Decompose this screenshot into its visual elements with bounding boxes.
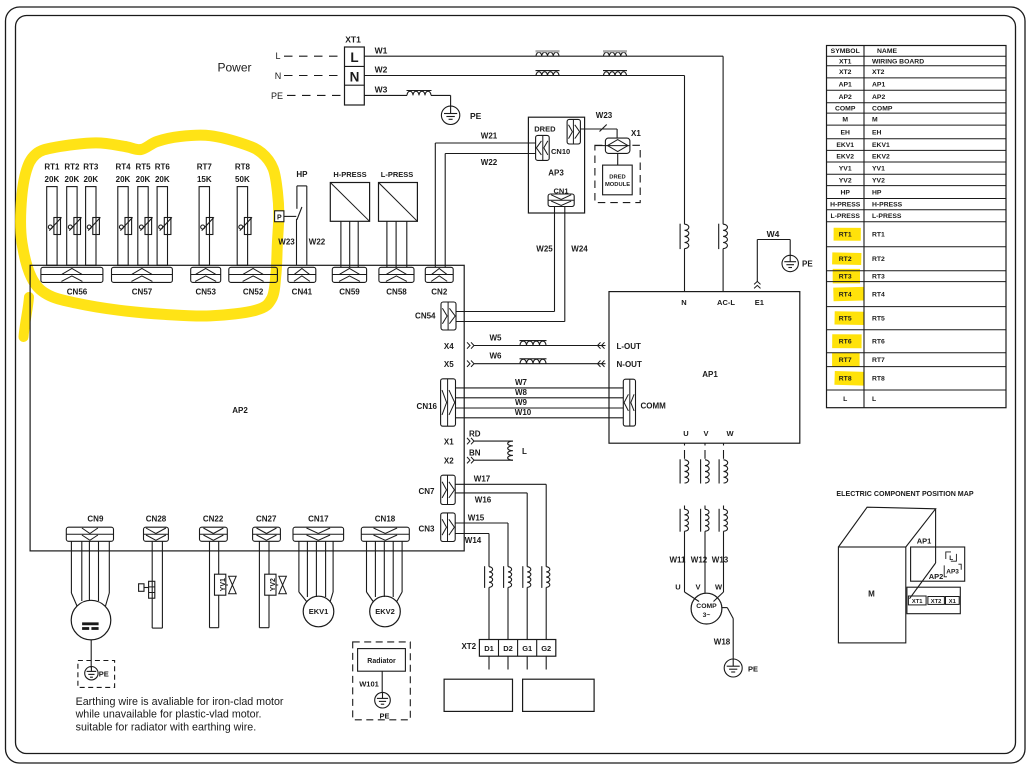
svg-text:W8: W8 [515,388,528,397]
wire W17 [455,475,546,567]
svg-text:M: M [868,590,875,599]
solenoid YV1 [215,574,237,595]
connector CN57 [112,267,173,296]
svg-text:HP: HP [840,190,850,197]
svg-text:MODULE: MODULE [605,182,630,188]
wire W14 [455,534,489,567]
svg-text:XT2: XT2 [931,599,942,605]
ground PE radiator [375,692,391,720]
svg-text:U: U [675,583,680,592]
svg-text:EKV1: EKV1 [872,142,890,149]
thermistor RT6 20K [155,163,172,266]
wire W3 [364,85,450,107]
ground PE under motor [85,667,109,680]
svg-text:W12: W12 [691,556,708,565]
svg-text:W23: W23 [596,111,613,120]
position map title [836,490,973,498]
cable from CN27 [259,541,269,627]
wire W22 [445,154,535,268]
svg-text:COMP: COMP [872,105,893,112]
svg-text:CN7: CN7 [418,487,435,496]
svg-text:L: L [872,396,876,403]
svg-text:CN41: CN41 [292,288,313,297]
svg-text:XT2: XT2 [839,69,852,76]
svg-text:X1: X1 [631,129,641,138]
svg-text:NAME: NAME [877,48,897,55]
wire W8 [456,388,624,398]
phase wire U column [680,443,699,602]
svg-text:W101: W101 [359,679,379,688]
module AP3 [528,117,584,213]
terminal AC-L [717,298,735,307]
inverter board AP1 [609,292,800,444]
phase wire V column [701,443,710,593]
svg-text:CN52: CN52 [243,288,264,297]
svg-text:W6: W6 [490,352,503,361]
svg-text:RT1: RT1 [44,163,60,172]
svg-text:CN10: CN10 [551,147,570,156]
svg-text:XT1: XT1 [839,58,852,65]
P sensor box [275,211,297,222]
svg-text:RT7: RT7 [839,357,852,364]
svg-text:RT4: RT4 [839,292,852,299]
svg-text:W11: W11 [669,556,686,565]
svg-text:YV2: YV2 [872,177,885,184]
device box D1-D2 [444,679,512,711]
svg-text:HP: HP [872,190,882,197]
plug arrow E1 [754,281,760,288]
svg-text:PE: PE [99,669,109,678]
svg-text:CN2: CN2 [431,288,448,297]
svg-text:CN54: CN54 [415,312,436,321]
symbol-name table [827,46,1007,408]
wire W2 [364,65,684,225]
svg-text:DRED: DRED [534,124,556,133]
socket arrow N-OUT [598,360,642,369]
inductor on W2 left [536,71,560,76]
terminal U [683,429,688,438]
svg-text:V: V [695,583,700,592]
svg-text:AP1: AP1 [872,82,885,89]
svg-text:CN28: CN28 [146,515,167,524]
connector CN22 [200,515,228,542]
svg-text:L: L [843,396,847,403]
svg-text:N: N [275,71,282,81]
pressure switch HP [296,170,308,265]
svg-text:L-PRESS: L-PRESS [872,213,902,220]
svg-text:HP: HP [296,170,308,179]
wire W13 [712,556,729,565]
clip on CN28 cable [139,581,155,598]
svg-text:W18: W18 [714,638,731,647]
svg-text:Radiator: Radiator [367,658,396,665]
svg-text:G2: G2 [541,644,551,653]
connector COMM [623,379,666,426]
wire W7 [456,378,624,388]
svg-text:AP1: AP1 [839,82,852,89]
svg-text:20K: 20K [45,175,60,184]
svg-text:RT3: RT3 [83,163,99,172]
plug X5 [444,360,606,369]
connector CN7 [418,475,455,504]
svg-text:RT2: RT2 [872,256,885,263]
terminal W [726,429,734,438]
svg-text:W5: W5 [490,333,503,342]
svg-text:AP1: AP1 [917,536,932,545]
earth enclosure dashed [78,661,115,688]
cable from CN22 [210,541,219,627]
wire motor to earth [90,640,92,668]
plug X4 [444,342,606,351]
wire W25 [456,207,555,312]
svg-text:RT1: RT1 [839,232,852,239]
svg-text:CN59: CN59 [339,288,360,297]
svg-text:D2: D2 [503,644,513,653]
svg-text:EH: EH [872,129,882,136]
svg-text:W2: W2 [375,65,388,75]
svg-text:X5: X5 [444,360,454,369]
node PE lead [271,91,345,101]
position map L component [946,552,957,562]
terminal N [681,298,686,307]
inductor on XT2 feed x489 [485,566,493,639]
svg-text:RT4: RT4 [115,163,131,172]
connector CN9 [66,515,113,542]
svg-text:AP3: AP3 [548,168,564,177]
svg-text:X2: X2 [444,457,454,466]
thermistor RT2 20K [64,163,81,266]
svg-text:AC-L: AC-L [717,298,735,307]
inductor on W5 [490,333,547,345]
svg-text:W22: W22 [481,158,498,167]
svg-text:50K: 50K [235,175,250,184]
wire D2 down [507,656,509,669]
svg-text:AP2: AP2 [232,406,248,415]
svg-text:XT2: XT2 [461,642,476,651]
svg-text:D1: D1 [484,644,494,653]
svg-text:N: N [350,70,360,85]
svg-text:RT5: RT5 [839,316,852,323]
connector CN28 [144,515,169,542]
inductor L [508,441,527,460]
svg-text:L-OUT: L-OUT [617,342,642,351]
svg-text:W7: W7 [515,378,528,387]
connector CN27 [253,515,281,542]
svg-text:EKV2: EKV2 [872,154,890,161]
wire D1 down [488,656,490,669]
svg-text:X1: X1 [949,599,957,605]
svg-text:RT3: RT3 [872,274,885,281]
svg-text:XT2: XT2 [872,69,885,76]
connector CN52 [229,267,278,296]
svg-text:XT1: XT1 [912,599,923,605]
node N lead [275,71,345,81]
wire W9 [456,398,624,408]
wire W23 DRED to X1 [580,111,617,138]
connector CN10 [536,135,571,160]
svg-text:P: P [277,215,282,222]
sensor H-PRESS [330,170,369,267]
thermistor RT4 20K [115,163,132,266]
svg-text:W4: W4 [767,229,780,239]
svg-text:V: V [703,429,708,438]
svg-text:RT3: RT3 [839,274,852,281]
svg-text:YV1: YV1 [872,166,885,173]
thermistor RT3 20K [83,163,100,266]
inductor on AC-L drop [719,224,728,292]
motor M [71,600,111,640]
svg-text:PE: PE [470,111,482,121]
inductor on W1 right [603,51,627,56]
svg-text:YV2: YV2 [839,177,852,184]
wire W1 [364,46,723,225]
connector X1 [595,129,641,153]
socket arrow L-OUT [598,342,642,351]
inductor on W1 left [536,51,560,56]
svg-text:RT1: RT1 [872,232,885,239]
inductor on N drop [680,224,689,292]
position map AP1 label [917,536,932,545]
svg-text:EKV1: EKV1 [836,142,854,149]
wire W16 [455,493,527,567]
svg-text:E1: E1 [755,298,764,307]
svg-text:COMM: COMM [641,401,667,410]
svg-text:RT8: RT8 [872,376,885,383]
svg-text:suitable for radiator with ear: suitable for radiator with earthing wire… [76,721,257,733]
node L lead [275,51,344,61]
svg-text:20K: 20K [155,175,170,184]
svg-text:3~: 3~ [703,612,711,619]
wire W12 [691,556,708,565]
wire G2 down [545,656,547,669]
connector CN3 [418,513,455,542]
position map control box [911,547,965,581]
svg-text:20K: 20K [136,175,151,184]
svg-text:CN57: CN57 [132,288,153,297]
svg-text:W23: W23 [278,238,295,247]
cable from CN28 [152,541,162,628]
svg-text:W22: W22 [309,238,326,247]
connector CN54 [415,302,456,330]
svg-text:RT6: RT6 [872,339,885,346]
svg-text:X1: X1 [444,438,454,447]
plug X2 BN [444,449,513,466]
svg-text:CN17: CN17 [308,515,329,524]
svg-text:CN18: CN18 [375,515,396,524]
connector CN53 [191,267,221,296]
svg-text:X4: X4 [444,342,454,351]
svg-text:U: U [683,429,688,438]
svg-text:PE: PE [271,91,283,101]
svg-text:RT7: RT7 [197,163,213,172]
svg-text:M: M [872,117,878,124]
svg-text:W10: W10 [515,408,532,417]
radiator box [353,642,411,720]
svg-text:H-PRESS: H-PRESS [333,170,366,179]
position map AP2 label [929,572,944,581]
connector CN18 [361,515,409,542]
compressor COMP [691,593,722,624]
main board AP2 [30,265,464,551]
connector CN56 [41,267,103,296]
svg-text:W25: W25 [536,245,553,254]
label Power [217,61,251,75]
thermistor RT5 20K [135,163,152,266]
svg-text:20K: 20K [116,175,131,184]
label W at compressor [715,583,723,592]
wire W10 [456,408,624,418]
connector CN1 [548,186,574,206]
svg-text:20K: 20K [83,175,98,184]
terminal V [703,429,708,438]
svg-text:RT4: RT4 [872,292,885,299]
table highlighter marks [832,228,864,386]
svg-text:RT2: RT2 [839,256,852,263]
svg-text:CN3: CN3 [418,525,435,534]
svg-text:CN16: CN16 [417,402,438,411]
valve motor EKV1 [299,541,334,627]
svg-text:PE: PE [748,664,758,673]
svg-text:CN53: CN53 [195,288,216,297]
svg-text:WIRING BOARD: WIRING BOARD [872,58,924,65]
inductor on XT2 feed x527 [523,566,531,639]
svg-text:CN9: CN9 [87,515,104,524]
position map unit body [838,507,935,643]
wire W4 [757,229,790,282]
svg-text:W21: W21 [481,131,498,140]
svg-text:W13: W13 [712,556,729,565]
svg-text:SYMBOL: SYMBOL [831,48,860,55]
svg-text:20K: 20K [65,175,80,184]
solenoid YV2 [265,574,287,595]
svg-text:15K: 15K [197,175,212,184]
thermistor RT8 50K [235,163,252,266]
wire W24 [456,207,588,322]
svg-text:RT5: RT5 [135,163,151,172]
svg-text:RT2: RT2 [64,163,80,172]
inductor on W3 [407,91,432,96]
svg-text:DRED: DRED [609,175,625,181]
svg-text:W24: W24 [571,245,588,254]
wire W101 [359,671,382,693]
DRED MODULE box [603,153,633,194]
label V at compressor [695,583,700,592]
phase wire W column [714,443,728,602]
device box G1-G2 [523,679,595,711]
connector CN59 [332,267,366,296]
terminal block XT2 [461,640,555,657]
svg-text:RT6: RT6 [839,339,852,346]
svg-text:L: L [275,51,280,61]
svg-text:RT8: RT8 [839,376,852,383]
wire W22 to CN41 [309,238,326,247]
svg-text:H-PRESS: H-PRESS [830,202,861,209]
svg-text:W: W [715,583,723,592]
svg-text:W14: W14 [465,536,482,545]
svg-text:L-PRESS: L-PRESS [830,213,860,220]
position map terminal strip [907,587,960,614]
svg-text:AP2: AP2 [839,94,852,101]
terminal block XT1 [345,35,365,106]
svg-text:PE: PE [802,260,813,269]
valve motor EKV2 [367,541,403,627]
DRED MODULE dashed enclosure [595,145,640,202]
svg-text:ELECTRIC COMPONENT POSITION MA: ELECTRIC COMPONENT POSITION MAP [836,490,973,498]
terminal E1 [755,298,764,307]
svg-text:BN: BN [469,449,481,458]
inductor on W6 [490,352,547,364]
wire G1 down [526,656,528,669]
position map AP3 label [944,564,961,577]
svg-text:RT5: RT5 [872,316,885,323]
svg-text:CN56: CN56 [67,288,88,297]
svg-text:RT6: RT6 [155,163,171,172]
svg-text:L-PRESS: L-PRESS [381,170,414,179]
svg-text:COMP: COMP [696,603,717,610]
svg-text:W9: W9 [515,398,528,407]
svg-text:N-OUT: N-OUT [617,360,642,369]
svg-text:G1: G1 [522,644,532,653]
wire W15 [455,513,508,566]
svg-text:Earthing wire is avaliable for: Earthing wire is avaliable for iron-clad… [76,696,284,708]
svg-text:EKV2: EKV2 [836,154,854,161]
svg-text:Power: Power [217,61,251,75]
svg-text:L: L [350,50,358,65]
svg-text:W16: W16 [475,495,492,504]
svg-text:M: M [842,117,848,124]
svg-text:W1: W1 [375,46,388,56]
svg-text:EKV1: EKV1 [309,607,329,616]
connector CN17 [293,515,344,542]
sensor L-PRESS [379,170,418,267]
svg-text:L: L [522,447,527,456]
connector CN16 [417,379,456,426]
inductor on XT2 feed x508 [504,566,512,639]
svg-text:W3: W3 [375,85,388,95]
wire W23 to CN41 [278,238,295,247]
svg-text:CN27: CN27 [256,515,277,524]
note text [75,696,284,733]
connector CN41 [288,267,316,296]
svg-text:RT7: RT7 [872,357,885,364]
svg-text:W: W [726,429,734,438]
svg-text:N: N [681,298,686,307]
wire W11 [669,556,686,565]
thermistor RT7 15K [197,163,214,266]
svg-text:H-PRESS: H-PRESS [872,202,903,209]
wires CN9 to motor [71,541,109,606]
thermistor RT1 20K [44,163,61,266]
svg-text:EKV2: EKV2 [375,607,395,616]
svg-text:XT1: XT1 [345,35,361,45]
svg-text:RT8: RT8 [235,163,251,172]
connector CN58 [379,267,414,296]
svg-text:CN58: CN58 [386,288,407,297]
ground PE at power input [441,106,481,124]
svg-text:AP2: AP2 [929,572,944,581]
svg-text:PE: PE [379,711,389,720]
svg-text:W15: W15 [468,513,485,522]
svg-text:while unavailable for plastic-: while unavailable for plastic-vlad motor… [75,709,262,721]
inductor on XT2 feed x546 [542,566,550,639]
svg-text:YV1: YV1 [839,166,852,173]
svg-text:AP2: AP2 [872,94,885,101]
plug X1 RD [444,430,513,447]
wire W21 [435,131,535,267]
connector CN2 [425,267,453,296]
svg-text:CN22: CN22 [203,515,224,524]
svg-text:COMP: COMP [835,105,856,112]
